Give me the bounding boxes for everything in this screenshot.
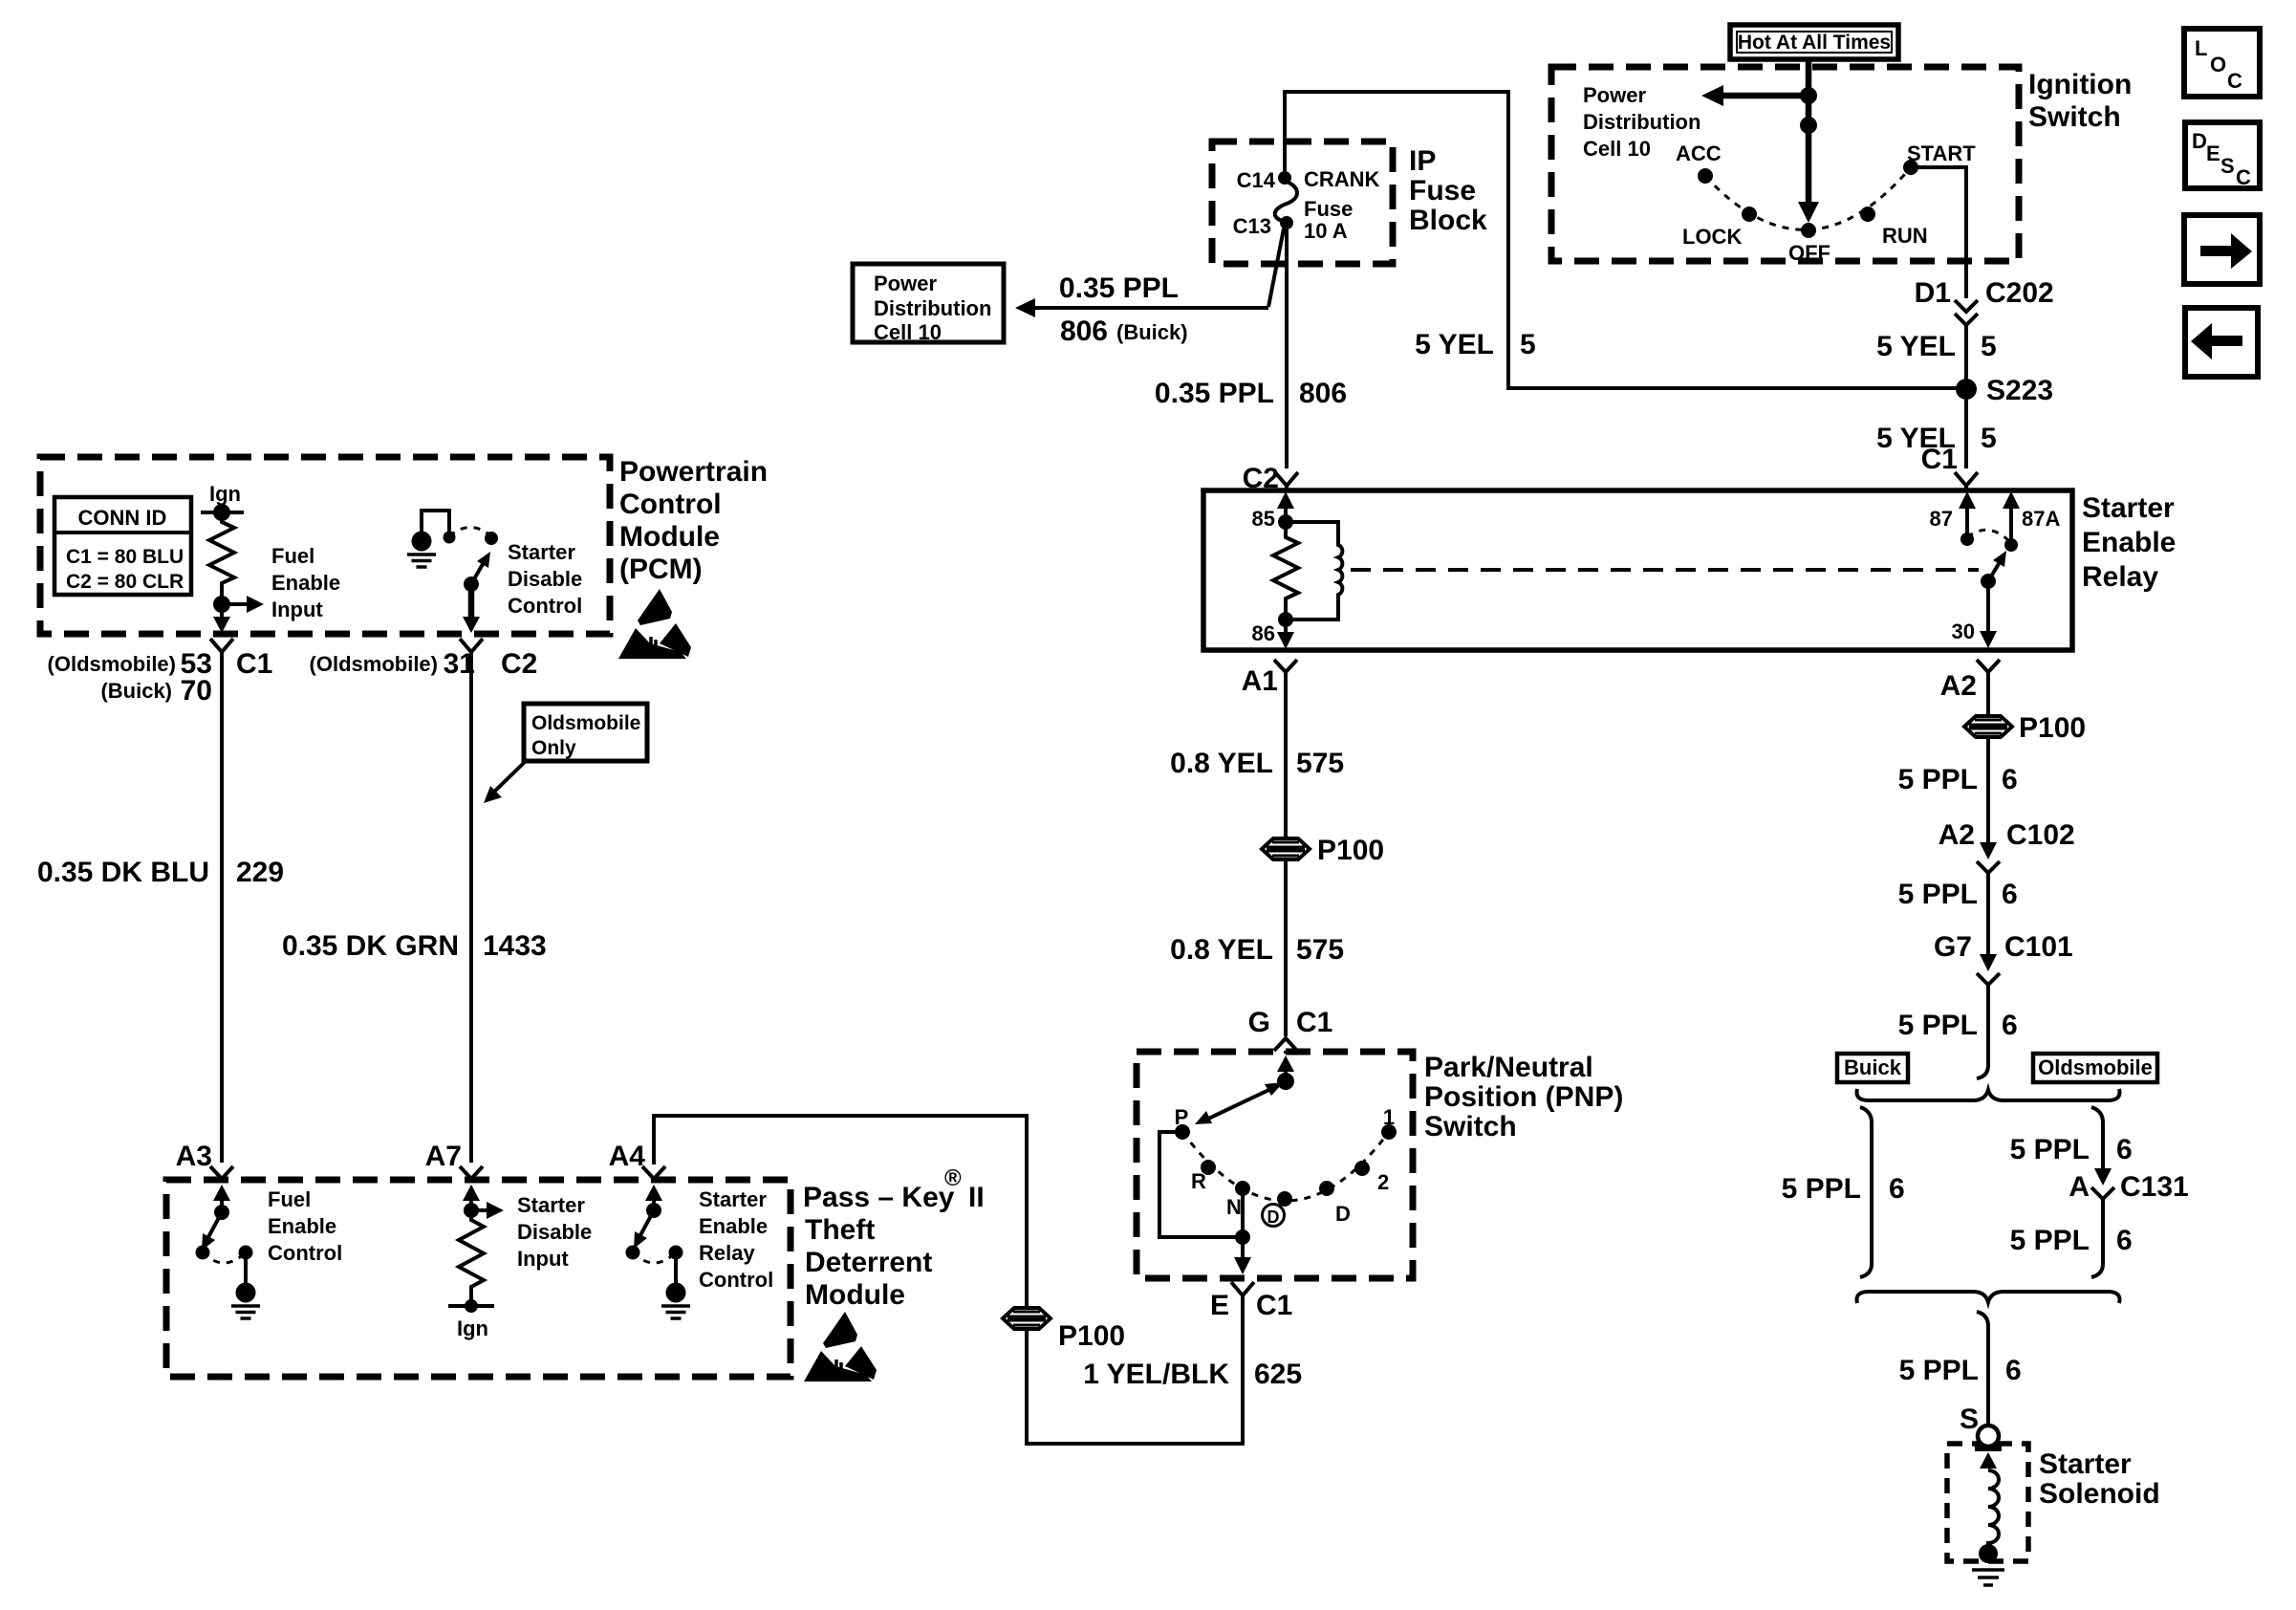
connector A4	[642, 1166, 665, 1179]
svg-text:Disable: Disable	[517, 1220, 592, 1244]
ignition switch dashed box	[1551, 67, 2019, 261]
wire A4 to PNP switch E C1 via P100	[654, 1116, 1243, 1444]
svg-text:1 YEL/BLK: 1 YEL/BLK	[1083, 1359, 1229, 1390]
PCM module dashed box	[40, 457, 610, 634]
connector A7	[460, 1166, 483, 1179]
wire to C1 pin with down arrow	[220, 604, 224, 621]
svg-text:C: C	[2227, 69, 2242, 93]
svg-text:Switch: Switch	[2028, 101, 2121, 133]
svg-text:6: 6	[2002, 1010, 2018, 1041]
svg-text:S: S	[2220, 154, 2235, 178]
svg-text:Oldsmobile: Oldsmobile	[2038, 1055, 2153, 1079]
svg-text:C202: C202	[1985, 277, 2054, 309]
svg-text:5: 5	[1981, 423, 1997, 454]
Ign rail	[448, 1304, 494, 1308]
Hot At All Times box	[1730, 25, 1898, 59]
starter disable switch blade	[464, 577, 479, 592]
svg-text:Power: Power	[874, 272, 937, 295]
svg-text:5 PPL: 5 PPL	[1899, 1355, 1979, 1386]
wire C102 to C101 (5 PPL 6)	[1986, 873, 1990, 954]
feed wire from hot box	[1806, 59, 1812, 125]
pin 86 arrow	[1284, 620, 1288, 635]
svg-text:1433: 1433	[483, 930, 547, 962]
svg-text:CONN ID: CONN ID	[78, 506, 167, 530]
P-N jumper bracket	[1159, 1132, 1243, 1237]
Power Distribution Cell 10 box	[853, 264, 1004, 342]
S ring terminal	[1978, 1425, 1999, 1447]
svg-text:Starter: Starter	[517, 1193, 585, 1217]
svg-text:5 PPL: 5 PPL	[1898, 879, 1978, 910]
svg-text:Module: Module	[805, 1279, 905, 1311]
svg-text:C2: C2	[1243, 463, 1279, 494]
wire to starter solenoid (5 PPL 6)	[1977, 1312, 1988, 1425]
Buick rail wire	[1860, 1107, 1872, 1277]
svg-text:10 A: 10 A	[1304, 219, 1348, 243]
svg-text:806: 806	[1060, 315, 1108, 347]
node below resistor	[213, 596, 230, 613]
connector A2	[1977, 660, 2000, 672]
svg-text:C13: C13	[1233, 214, 1271, 238]
svg-text:C1: C1	[1256, 1290, 1292, 1321]
starter enable relay control blade	[640, 1210, 654, 1235]
svg-text:C101: C101	[2004, 931, 2073, 963]
exit arrow to E C1	[1241, 1237, 1245, 1260]
solenoid coil	[1988, 1470, 1999, 1546]
svg-text:A1: A1	[1242, 665, 1278, 697]
fuse terminal C14	[1278, 171, 1291, 185]
svg-text:Fuse: Fuse	[1409, 175, 1476, 207]
connector A3	[210, 1166, 233, 1179]
svg-text:A: A	[2069, 1171, 2090, 1203]
Pass-Key module dashed box	[166, 1180, 791, 1377]
right arrow icon box	[2184, 215, 2260, 284]
IP fuse block dashed box	[1212, 141, 1393, 264]
solenoid ground ball	[1979, 1544, 1998, 1563]
svg-text:87: 87	[1930, 507, 1953, 531]
svg-text:C1: C1	[1296, 1007, 1332, 1038]
svg-text:Ignition: Ignition	[2028, 69, 2132, 100]
A4 ground stem	[674, 1252, 678, 1283]
svg-text:P100: P100	[1058, 1320, 1125, 1352]
resistor (fuel enable pull-up)	[209, 512, 234, 604]
svg-text:Deterrent: Deterrent	[805, 1247, 932, 1278]
svg-text:N: N	[1226, 1195, 1242, 1219]
PCM ground bracket	[422, 511, 449, 533]
Oldsmobile box	[2033, 1054, 2157, 1082]
svg-text:Position (PNP): Position (PNP)	[1424, 1081, 1623, 1113]
bottom grouping brace	[1857, 1292, 2120, 1303]
relay coil	[1286, 522, 1342, 620]
A7 resistor	[459, 1210, 484, 1306]
svg-text:E: E	[2206, 141, 2220, 165]
svg-text:Pass – Key: Pass – Key	[803, 1182, 955, 1213]
svg-text:Power: Power	[1583, 83, 1646, 107]
svg-text:5: 5	[1520, 329, 1536, 360]
svg-text:P100: P100	[2019, 712, 2086, 744]
wire fuse to ignition jog	[1285, 92, 1966, 388]
svg-text:RUN: RUN	[1882, 224, 1928, 248]
svg-text:575: 575	[1296, 934, 1344, 966]
svg-text:575: 575	[1296, 748, 1344, 779]
svg-text:5 PPL: 5 PPL	[1898, 764, 1978, 795]
ignition switch arc	[1705, 167, 1911, 229]
svg-text:II: II	[968, 1182, 985, 1213]
svg-text:Starter: Starter	[2082, 492, 2175, 524]
svg-text:85: 85	[1252, 507, 1275, 531]
svg-text:G7: G7	[1934, 931, 1972, 963]
left arrow icon box	[2185, 308, 2258, 377]
svg-text:(Buick): (Buick)	[1116, 320, 1188, 344]
svg-text:Solenoid: Solenoid	[2039, 1478, 2160, 1510]
connector A2 C102	[1980, 842, 1997, 859]
svg-text:Enable: Enable	[699, 1214, 768, 1238]
connector A C131	[2094, 1168, 2112, 1186]
svg-text:6: 6	[1889, 1173, 1905, 1205]
svg-text:Relay: Relay	[2082, 561, 2158, 593]
svg-text:D1: D1	[1915, 277, 1951, 309]
svg-text:5 PPL: 5 PPL	[1898, 1010, 1978, 1041]
connector D1 C202	[1955, 300, 1978, 325]
wire A1 to G C1 (0.8 YEL 575)	[1284, 672, 1288, 1036]
splice P100	[1003, 1308, 1051, 1329]
starter disable switch arc	[449, 528, 491, 537]
Oldsmobile Only box	[524, 704, 647, 761]
fuel enable input arrow	[222, 602, 249, 606]
A3 entry arrow	[220, 1197, 224, 1212]
relay resistor	[1273, 522, 1298, 620]
connector C1 at relay	[1955, 472, 1978, 490]
PNP contact arc	[1182, 1132, 1389, 1201]
svg-text:C14: C14	[1237, 168, 1276, 192]
svg-text:C102: C102	[2006, 819, 2075, 851]
svg-text:70: 70	[181, 675, 212, 707]
wiper pivot node	[1277, 1073, 1294, 1090]
wire to C2 pin with down arrow	[468, 584, 475, 620]
svg-text:Buick: Buick	[1844, 1055, 1902, 1079]
svg-text:D: D	[2192, 129, 2207, 153]
ESD symbol Pass-Key	[804, 1312, 877, 1382]
ground	[407, 532, 436, 568]
circled D drive indicator	[1263, 1205, 1285, 1227]
svg-text:6: 6	[2002, 764, 2018, 795]
fuel enable control blade	[208, 1212, 222, 1237]
svg-text:30: 30	[1952, 620, 1975, 643]
A7 entry arrow	[469, 1197, 473, 1210]
pin 85 arrow	[1284, 503, 1288, 522]
A4 switch arc	[633, 1252, 676, 1263]
svg-text:A3: A3	[176, 1141, 212, 1172]
svg-text:D: D	[1267, 1207, 1280, 1227]
svg-text:G: G	[1248, 1007, 1270, 1038]
svg-text:(PCM): (PCM)	[619, 554, 703, 585]
branch to power distribution	[1032, 228, 1284, 308]
connector G C1	[1274, 1038, 1297, 1054]
CONN ID box	[54, 497, 191, 595]
wiper double arrow	[1204, 1085, 1279, 1120]
svg-text:6: 6	[2005, 1355, 2022, 1386]
svg-text:Starter: Starter	[2039, 1448, 2132, 1480]
svg-text:5 PPL: 5 PPL	[2010, 1225, 2090, 1256]
svg-text:Control: Control	[619, 489, 722, 520]
svg-text:0.8 YEL: 0.8 YEL	[1170, 748, 1273, 779]
solenoid terminal bar	[1975, 1446, 2002, 1451]
LOC icon box	[2184, 29, 2260, 97]
splice P100	[1964, 716, 2012, 737]
svg-text:5 PPL: 5 PPL	[1782, 1173, 1861, 1205]
svg-text:C2: C2	[501, 648, 537, 680]
svg-text:A2: A2	[1939, 819, 1975, 851]
Ign feed wire in PCM	[201, 511, 244, 514]
svg-text:2: 2	[1377, 1170, 1389, 1194]
wire C101 down (5 PPL 6)	[1977, 985, 1988, 1078]
entry arrow	[1284, 1069, 1288, 1081]
svg-text:Theft: Theft	[805, 1214, 875, 1246]
relay contact arc	[1967, 530, 2011, 543]
svg-text:Fuel: Fuel	[268, 1187, 311, 1211]
svg-text:Module: Module	[619, 521, 720, 553]
svg-text:(Oldsmobile): (Oldsmobile)	[310, 652, 438, 676]
svg-text:Input: Input	[517, 1247, 569, 1271]
svg-text:6: 6	[2116, 1134, 2133, 1165]
wire A2 down (5 PPL 6)	[1986, 672, 1990, 842]
svg-text:Switch: Switch	[1424, 1111, 1517, 1142]
splice P100	[1262, 838, 1310, 859]
A3 ground stem	[244, 1252, 248, 1283]
svg-text:Park/Neutral: Park/Neutral	[1424, 1052, 1593, 1083]
pin 87A arrow	[2009, 503, 2013, 545]
svg-text:LOCK: LOCK	[1682, 225, 1742, 249]
svg-text:IP: IP	[1409, 145, 1436, 177]
svg-text:Oldsmobile: Oldsmobile	[531, 712, 640, 734]
svg-text:6: 6	[2002, 879, 2018, 910]
svg-text:Control: Control	[508, 594, 582, 618]
svg-text:P100: P100	[1317, 835, 1384, 866]
svg-text:C1: C1	[1921, 444, 1958, 475]
Oldsmobile rail wire upper	[2091, 1107, 2103, 1168]
arrow to power distribution cell 10	[1722, 93, 1809, 99]
node upper	[1800, 87, 1817, 104]
svg-text:O: O	[2210, 53, 2226, 76]
svg-text:Cell 10: Cell 10	[874, 320, 942, 344]
junction node	[1235, 1229, 1250, 1245]
connector A1	[1274, 660, 1297, 672]
svg-text:P: P	[1175, 1105, 1189, 1129]
svg-text:Ign: Ign	[209, 482, 241, 506]
svg-text:0.35 DK GRN: 0.35 DK GRN	[282, 930, 459, 962]
ignition contacts	[1698, 168, 1713, 184]
A3 contact dots	[196, 1246, 210, 1260]
connector G7 C101	[1980, 954, 1997, 971]
svg-text:Starter: Starter	[699, 1187, 767, 1211]
svg-text:C131: C131	[2120, 1171, 2189, 1203]
PNP switch dashed box	[1137, 1052, 1413, 1278]
svg-text:E: E	[1210, 1290, 1229, 1321]
svg-text:Distribution: Distribution	[874, 296, 991, 320]
svg-text:C1: C1	[236, 648, 272, 680]
Oldsmobile Only pointer arrow	[491, 762, 525, 794]
wire C2 to A7 (0.35 DK GRN 1433)	[469, 652, 473, 1163]
svg-text:0.8 YEL: 0.8 YEL	[1170, 934, 1273, 966]
svg-text:D: D	[1335, 1202, 1351, 1226]
starter solenoid dashed box	[1947, 1444, 2028, 1561]
svg-text:Block: Block	[1409, 205, 1487, 236]
A3 switch arc	[203, 1252, 246, 1263]
svg-text:CRANK: CRANK	[1304, 167, 1380, 191]
svg-text:Input: Input	[271, 598, 323, 621]
svg-text:5 YEL: 5 YEL	[1876, 331, 1956, 362]
svg-text:0.35 PPL: 0.35 PPL	[1155, 378, 1274, 409]
wire C1 to A3 (0.35 DK BLU 229)	[220, 652, 224, 1163]
svg-text:806: 806	[1299, 378, 1347, 409]
A4 pivot node	[646, 1203, 661, 1218]
svg-text:C2 = 80 CLR: C2 = 80 CLR	[66, 571, 184, 593]
svg-text:A7: A7	[425, 1141, 462, 1172]
A7 node	[464, 1203, 479, 1218]
svg-text:Enable: Enable	[271, 571, 340, 595]
svg-text:Fuel: Fuel	[271, 544, 314, 568]
svg-text:86: 86	[1252, 621, 1275, 645]
svg-text:Only: Only	[531, 737, 576, 759]
node on Ign feed	[213, 504, 230, 521]
coupling dashed line	[1351, 568, 1979, 572]
svg-text:Relay: Relay	[699, 1241, 755, 1265]
connector C2 at relay	[1275, 472, 1298, 490]
wire START to C202	[1911, 167, 1966, 298]
connector C1 at PCM	[210, 639, 233, 652]
svg-text:A4: A4	[609, 1141, 646, 1172]
svg-text:229: 229	[236, 857, 284, 888]
svg-text:Control: Control	[268, 1241, 342, 1265]
svg-text:S: S	[1960, 1403, 1979, 1435]
PNP contacts P R N D D 2 1	[1175, 1124, 1190, 1140]
svg-text:5 YEL: 5 YEL	[1415, 329, 1494, 360]
svg-text:Powertrain: Powertrain	[619, 456, 768, 488]
svg-text:625: 625	[1254, 1359, 1302, 1390]
CRANK fuse element	[1275, 181, 1297, 222]
svg-text:5 PPL: 5 PPL	[2010, 1134, 2090, 1165]
connector E C1	[1231, 1282, 1254, 1295]
svg-text:Ign: Ign	[457, 1316, 488, 1340]
svg-text:®: ®	[944, 1165, 962, 1191]
svg-text:Fuse: Fuse	[1304, 197, 1353, 221]
Oldsmobile rail wire lower	[2091, 1199, 2103, 1277]
splice S223	[1956, 379, 1977, 400]
ground	[661, 1283, 690, 1319]
svg-text:31: 31	[444, 648, 475, 680]
svg-text:C: C	[2236, 165, 2251, 189]
svg-text:R: R	[1191, 1169, 1206, 1193]
svg-text:87A: 87A	[2022, 507, 2060, 531]
svg-text:Distribution: Distribution	[1583, 110, 1700, 134]
svg-text:Hot At All Times: Hot At All Times	[1738, 32, 1891, 54]
svg-text:OFF: OFF	[1788, 241, 1830, 265]
starter enable relay box	[1203, 490, 2072, 650]
svg-text:(Buick): (Buick)	[100, 679, 172, 703]
svg-text:L: L	[2195, 36, 2207, 60]
svg-text:Enable: Enable	[268, 1214, 336, 1238]
relay blade	[1981, 574, 1996, 589]
ground	[231, 1283, 260, 1319]
Buick box	[1837, 1054, 1908, 1082]
svg-text:(Oldsmobile): (Oldsmobile)	[48, 652, 176, 676]
svg-text:ACC: ACC	[1676, 141, 1722, 165]
wire C202 to relay C1 (5 YEL 5)	[1964, 325, 1968, 468]
svg-text:0.35 PPL: 0.35 PPL	[1059, 272, 1179, 304]
wire C13 down (0.35 PPL 806)	[1285, 229, 1289, 468]
connector C2 at PCM	[460, 639, 483, 652]
svg-text:S223: S223	[1986, 375, 2053, 406]
svg-text:6: 6	[2116, 1225, 2133, 1256]
node lower	[1800, 117, 1817, 134]
svg-text:0.35 DK BLU: 0.35 DK BLU	[37, 857, 209, 888]
svg-text:Enable: Enable	[2082, 527, 2176, 558]
svg-text:Starter: Starter	[508, 540, 575, 564]
svg-text:Control: Control	[699, 1268, 773, 1292]
ESD symbol PCM	[618, 589, 691, 659]
contact dot left	[444, 532, 456, 544]
top grouping brace	[1857, 1089, 2120, 1100]
fuse terminal C13	[1280, 216, 1293, 229]
solenoid entry arrow	[1986, 1465, 1990, 1469]
DESC icon box	[2185, 122, 2260, 188]
A4 entry arrow	[652, 1197, 656, 1210]
svg-text:Disable: Disable	[508, 567, 582, 591]
wiper arrow to OFF	[1806, 125, 1812, 203]
svg-text:5: 5	[1981, 331, 1997, 362]
svg-text:START: START	[1907, 141, 1976, 165]
contact dot right	[485, 532, 498, 545]
ground	[1972, 1570, 2004, 1585]
svg-text:Cell 10: Cell 10	[1583, 137, 1651, 161]
A4 contact dots	[626, 1246, 640, 1260]
A3 pivot node	[214, 1205, 229, 1220]
pin 30 wire and arrow	[1986, 581, 1990, 635]
svg-text:A2: A2	[1940, 670, 1977, 702]
starter disable input arrow	[471, 1208, 488, 1212]
svg-text:C1 = 80 BLU: C1 = 80 BLU	[66, 546, 184, 568]
pin 87 arrow	[1965, 503, 1969, 539]
svg-text:1: 1	[1383, 1105, 1395, 1129]
